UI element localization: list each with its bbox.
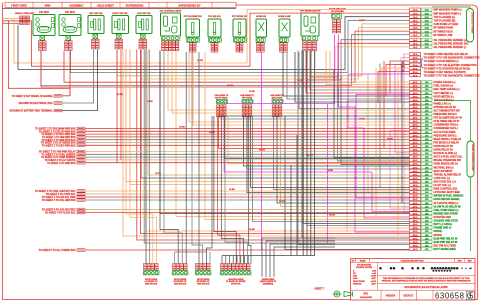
wire (205, 52, 410, 220)
pin CN4-4 (410, 91, 421, 94)
wire (299, 52, 410, 109)
wire (225, 116, 410, 159)
pin CN4-42 (410, 226, 421, 229)
wire (306, 51, 410, 94)
svg-text:TO SHEET 4 TO SOL GND BUS: TO SHEET 4 TO SOL GND BUS (42, 199, 76, 202)
svg-text:6450: 6450 (45, 3, 51, 7)
svg-text:4D·3: 4D·3 (413, 216, 419, 219)
svg-text:4D·3: 4D·3 (413, 173, 419, 176)
connector J2 socket (93, 34, 98, 39)
svg-text:NTS: NTS (363, 294, 368, 296)
svg-text:4D·3: 4D·3 (413, 181, 419, 184)
wire B5 spare leads (262, 238, 335, 277)
wire (307, 40, 410, 80)
svg-text:TO SHEET 2 KEY SIGNAL B (GAUGE: TO SHEET 2 KEY SIGNAL B (GAUGE) (12, 95, 53, 98)
svg-text:±1/2°: ±1/2° (371, 283, 376, 285)
pin CN4-43 (410, 230, 421, 233)
svg-text:P.B. BOX: P.B. BOX (65, 12, 75, 14)
pin CN3-6 (410, 70, 421, 73)
header underline (3, 7, 237, 9)
connector J4 pins (139, 39, 143, 42)
svg-text:BACKUP ALARM (+): BACKUP ALARM (+) (434, 152, 458, 155)
svg-text:4D·3: 4D·3 (413, 188, 419, 191)
svg-text:18 MG: 18 MG (327, 170, 333, 172)
svg-text:4D·3: 4D·3 (413, 131, 419, 134)
pin CN4-10 (410, 113, 421, 116)
harness tag T1 (432, 7, 470, 9)
connector J5 pins (162, 41, 165, 44)
svg-text:SCHEMATIC,ELECTRICAL,6450: SCHEMATIC,ELECTRICAL,6450 (404, 285, 448, 289)
svg-text:4D·3: 4D·3 (413, 195, 419, 198)
svg-text:4D·3: 4D·3 (413, 124, 419, 127)
connector J8 pins (236, 43, 239, 46)
pin CN1-2 (410, 12, 421, 15)
svg-text:TO SHEET 4 TO FLOAT SOL: TO SHEET 4 TO FLOAT SOL (45, 212, 76, 215)
svg-text:SUPERSEDED BY: SUPERSEDED BY (178, 3, 200, 7)
wire border bus red (9, 21, 71, 96)
svg-text:NAME: NAME (360, 260, 366, 263)
wire (283, 52, 410, 96)
wire (148, 50, 410, 176)
pin CN4-2 (410, 84, 421, 87)
svg-text:4D·3: 4D·3 (413, 220, 419, 223)
wire G1 dark (62, 49, 98, 110)
svg-text:4D·3: 4D·3 (413, 237, 419, 240)
svg-text:GND SPLICE: GND SPLICE (197, 284, 210, 286)
svg-text:GND SPLICE: GND SPLICE (145, 284, 158, 286)
svg-text:TO SHEET 2 TO RELAY PWR BUS: TO SHEET 2 TO RELAY PWR BUS (39, 130, 76, 133)
svg-text:TO SHEET 3 KEY SIGNAL B (START: TO SHEET 3 KEY SIGNAL B (START) (424, 71, 467, 74)
pin CN4-36 (410, 205, 421, 208)
wire (123, 50, 410, 237)
svg-text:4D·3: 4D·3 (413, 113, 419, 116)
svg-text:4D·3: 4D·3 (413, 110, 419, 113)
svg-text:KEY SW PNL: KEY SW PNL (89, 13, 103, 15)
svg-text:18 OR: 18 OR (297, 80, 303, 82)
svg-text:4D·3: 4D·3 (413, 209, 419, 212)
title block left column (376, 262, 378, 290)
svg-text:4D·3: 4D·3 (413, 145, 419, 148)
svg-text:TO SHEET 2 TO IGN PWR BUS: TO SHEET 2 TO IGN PWR BUS (42, 137, 76, 139)
svg-text:TOP WIPER MOTOR: TOP WIPER MOTOR (300, 11, 321, 13)
connector J7 socket circles (209, 38, 222, 42)
wire left bus group 4 (85, 190, 410, 192)
svg-text:TO SHEET 3 TO TEMP SENDER: TO SHEET 3 TO TEMP SENDER (41, 157, 76, 159)
pin CN4-3 (410, 88, 421, 91)
svg-text:-: - (158, 4, 159, 7)
svg-text:FRT WORK LP RELAY: FRT WORK LP RELAY (434, 141, 460, 144)
wire (310, 51, 312, 256)
svg-text:4D·3: 4D·3 (413, 241, 419, 244)
harness tag T2 (467, 141, 474, 177)
pin CN1-8 (410, 33, 421, 36)
svg-text:1A·2: 1A·2 (413, 23, 419, 26)
svg-text:16 BK: 16 BK (249, 229, 255, 231)
pin CN4-11 (410, 116, 421, 119)
svg-text:OIL PRESSURE SENDER (-): OIL PRESSURE SENDER (-) (434, 46, 467, 49)
wire (295, 52, 410, 102)
connector J9 socket circles (256, 38, 265, 42)
svg-text:1A·2: 1A·2 (413, 20, 419, 23)
svg-text:TO SHEET 2 TO LP SENSE BUS: TO SHEET 2 TO LP SENSE BUS (41, 143, 76, 145)
connector B3 (196, 264, 199, 267)
svg-text:4D·3: 4D·3 (413, 88, 419, 91)
wire B3 drops (198, 52, 200, 264)
connector J11 pins (303, 41, 307, 44)
svg-text:14 RD: 14 RD (179, 125, 185, 128)
svg-text:TO SHEET 4 TO FUEL SHUTOFF SOL: TO SHEET 4 TO FUEL SHUTOFF SOL (35, 190, 76, 193)
wire G1 red (62, 51, 70, 96)
wire J3 red drops (117, 50, 410, 163)
pin CN4-15 (410, 130, 421, 133)
svg-text:OIL PRESSURE SENDER SIG.: OIL PRESSURE SENDER SIG. (434, 43, 470, 46)
svg-text:4D·3: 4D·3 (413, 102, 419, 105)
svg-text:TOP AIR SOL: TOP AIR SOL (208, 15, 222, 18)
svg-text:TO SHEET 4 TO 2 SPD SOL: TO SHEET 4 TO 2 SPD SOL (46, 193, 76, 196)
svg-text:CHASSIS GND STUD: CHASSIS GND STUD (434, 220, 458, 223)
pin CN4-14 (410, 127, 421, 130)
svg-text:4D·3: 4D·3 (413, 127, 419, 130)
svg-text:630658: 630658 (435, 292, 464, 301)
svg-text:16 RD: 16 RD (249, 91, 255, 93)
svg-text:CONDENSER FAN (-): CONDENSER FAN (-) (434, 127, 458, 130)
pin CN4-26 (410, 169, 421, 172)
pin CN3-1 (410, 53, 421, 56)
svg-text:RF WIPER LOW: RF WIPER LOW (434, 34, 453, 37)
svg-text:TO SHEET 2 TO THE MAIN PWR BUS: TO SHEET 2 TO THE MAIN PWR BUS (35, 128, 76, 131)
svg-text:W/ STROBE: W/ STROBE (331, 11, 344, 13)
pin CN4-12 (410, 120, 421, 123)
wire (274, 116, 410, 190)
wire (168, 51, 410, 111)
pin CN4-24 (410, 162, 421, 165)
svg-text:CAB ROOF HARN: CAB ROOF HARN (471, 12, 474, 33)
svg-text:TO SHEET 3 HOUR METER (+): TO SHEET 3 HOUR METER (+) (424, 60, 459, 63)
svg-text:4D·3: 4D·3 (413, 248, 419, 251)
pin CN4-22 (410, 155, 421, 158)
svg-text:4D·3: 4D·3 (413, 244, 419, 247)
wire (232, 256, 234, 264)
pin CN4-37 (410, 208, 421, 211)
connector J5 socket circles (162, 36, 180, 40)
wire (176, 51, 410, 217)
wire (277, 116, 410, 203)
wire (303, 51, 409, 224)
wire (314, 51, 316, 256)
svg-text:3C·4: 3C·4 (413, 74, 419, 77)
wire magenta roof beacon 2 (339, 35, 410, 233)
revision dots (379, 267, 382, 270)
svg-text:ECM PWR RELAY 85: ECM PWR RELAY 85 (434, 241, 458, 244)
pin CN1-3 (410, 15, 421, 18)
svg-text:TO SHEET 5 TO ALL POWER BUS: TO SHEET 5 TO ALL POWER BUS (39, 249, 76, 252)
svg-text:TOLERANCES: TOLERANCES (357, 264, 372, 267)
projection symbol (334, 291, 340, 297)
drawing title (377, 282, 475, 284)
connector J10 pins (280, 43, 284, 46)
svg-text:SUPERSEDES: SUPERSEDES (126, 3, 144, 7)
connector J6 pins (189, 43, 192, 46)
svg-text:HOUR METER SIGNAL: HOUR METER SIGNAL (434, 198, 461, 201)
pin CN4-21 (410, 152, 421, 155)
svg-text:18 TN: 18 TN (155, 173, 161, 175)
wire left bus single (85, 249, 410, 251)
svg-text:4D·3: 4D·3 (413, 234, 419, 237)
svg-text:ENGINE GND STRAP: ENGINE GND STRAP (434, 212, 459, 215)
connector J8 socket circles (234, 38, 247, 42)
svg-text:4D·3: 4D·3 (413, 152, 419, 155)
svg-text:1A·2: 1A·2 (413, 34, 419, 37)
wire (126, 50, 410, 182)
connector J7 pins (211, 43, 214, 46)
wire (221, 116, 410, 119)
svg-text:ANGLES: ANGLES (353, 282, 362, 285)
wire left bus group 2 (85, 128, 410, 130)
svg-text:WIRE & PWR DIST: WIRE & PWR DIST (15, 13, 35, 15)
wire bottom bundle (222, 255, 315, 257)
connector J4 socket (141, 34, 146, 39)
svg-text:2 SPD SOL (+): 2 SPD SOL (+) (434, 177, 451, 180)
wire (247, 256, 249, 264)
svg-text:ANG: ANG (353, 277, 358, 280)
svg-text:PARK BRAKE SW (+): PARK BRAKE SW (+) (434, 163, 459, 166)
wire (281, 116, 410, 207)
svg-text:HI BLOWER RELAY 87: HI BLOWER RELAY 87 (434, 120, 461, 123)
wire (251, 116, 410, 188)
svg-text:SHEET 7: SHEET 7 (315, 287, 326, 290)
svg-text:SEAT SW INPUT: SEAT SW INPUT (434, 170, 453, 173)
svg-text:HORN SW: HORN SW (256, 16, 266, 18)
wire (311, 51, 410, 229)
svg-text:-: - (224, 4, 225, 7)
wire (326, 51, 410, 85)
svg-text:TO SHEET 5 TO THE DIAGNOSTIC C: TO SHEET 5 TO THE DIAGNOSTIC CONNECTOR (424, 57, 480, 60)
pin CN4-32 (410, 191, 421, 194)
svg-text:FLOAT SOL (+): FLOAT SOL (+) (434, 184, 451, 187)
pin CN4-5 (410, 95, 421, 98)
pin CN4-35 (410, 201, 421, 204)
wire (141, 50, 410, 234)
svg-text:16 RD: 16 RD (147, 101, 153, 103)
svg-text:4D·3: 4D·3 (413, 99, 419, 102)
svg-text:ASSEMBLY: ASSEMBLY (69, 3, 83, 7)
pin CN2-3 (410, 45, 421, 48)
svg-text:BATT SENSE WIRE: BATT SENSE WIRE (434, 248, 457, 251)
svg-text:WIP WASHER PUMP (-): WIP WASHER PUMP (-) (434, 12, 462, 15)
wire (221, 256, 223, 264)
svg-text:4D·3: 4D·3 (413, 92, 419, 95)
svg-text:4D·3: 4D·3 (413, 205, 419, 208)
svg-text:STROBE RELAY 85: STROBE RELAY 85 (434, 106, 457, 109)
svg-text:3C·4: 3C·4 (413, 67, 419, 70)
wire (306, 51, 308, 256)
svg-text:4D·3: 4D·3 (413, 202, 419, 205)
wire (247, 116, 410, 193)
wire (225, 256, 227, 264)
wire (285, 116, 410, 250)
pin CN4-41 (410, 223, 421, 226)
pin CN4-33 (410, 194, 421, 197)
svg-text:18 OR: 18 OR (329, 214, 335, 216)
pin CN4-18 (410, 141, 421, 144)
svg-text:4D·3: 4D·3 (413, 117, 419, 120)
svg-text:3C·4: 3C·4 (413, 60, 419, 63)
svg-text:PRESSURE SW N.C.: PRESSURE SW N.C. (434, 134, 458, 137)
svg-text:18 RD: 18 RD (117, 94, 123, 96)
svg-text:16 GY: 16 GY (307, 155, 313, 157)
connector B1 (144, 264, 147, 267)
svg-text:TO SHEET 2 TO GND BUS BAR: TO SHEET 2 TO GND BUS BAR (42, 139, 76, 142)
wire (219, 116, 410, 149)
svg-text:4D·3: 4D·3 (413, 198, 419, 201)
wire (218, 115, 410, 117)
wire B4 elbows (214, 116, 236, 264)
svg-text:4D·3: 4D·3 (413, 85, 419, 88)
wire (296, 135, 298, 256)
svg-text:DOME LAMP: DOME LAMP (278, 15, 291, 18)
pin CN4-9 (410, 109, 421, 112)
svg-text:FRT WIPER SW: FRT WIPER SW (232, 16, 247, 18)
wire (71, 20, 410, 72)
wire (189, 52, 410, 122)
svg-text:RIDE CONTROL SOL: RIDE CONTROL SOL (434, 188, 459, 191)
wire (193, 52, 410, 125)
wire (240, 256, 242, 264)
wire (18, 17, 410, 70)
wire left bus group 3 (85, 151, 410, 153)
wire (229, 256, 231, 264)
svg-text:FRACTIONS: FRACTIONS (353, 280, 365, 283)
wire B2 elbows (160, 51, 178, 264)
pin CN3-7 (410, 74, 421, 77)
svg-text:4D·3: 4D·3 (413, 184, 419, 187)
svg-text:SCALE NONE: SCALE NONE (360, 296, 373, 299)
pin CN3-3 (410, 60, 421, 63)
svg-text:A/C CONTROL HEAD: A/C CONTROL HEAD (160, 10, 182, 13)
svg-text:18 PK: 18 PK (359, 118, 365, 120)
svg-text:1A·2: 1A·2 (413, 27, 419, 30)
svg-text:4D·3: 4D·3 (413, 138, 419, 141)
pin CN4-29 (410, 180, 421, 183)
svg-text:HARNESS): HARNESS) (263, 283, 274, 286)
wire B1 drops (145, 50, 147, 264)
connector B2 (173, 264, 176, 267)
svg-text:RF WIPER PARK: RF WIPER PARK (434, 27, 454, 30)
svg-text:LIGHT SW PNL: LIGHT SW PNL (112, 13, 128, 15)
svg-text:4D·3: 4D·3 (413, 163, 419, 166)
wire dark feeders (334, 69, 410, 157)
connector J2 pins (92, 39, 96, 42)
pin CN4-40 (410, 219, 421, 222)
svg-text:WIP WASHER PUMP (+): WIP WASHER PUMP (+) (434, 9, 462, 12)
svg-text:ROOF BEACON: ROOF BEACON (329, 7, 346, 10)
wire pink drop 2 (347, 58, 410, 232)
svg-text:16 OR: 16 OR (197, 60, 203, 62)
connector P1 pins (39, 41, 43, 44)
svg-text:TO SHEET 3 TO FAN PWR RELAY: TO SHEET 3 TO FAN PWR RELAY (39, 151, 76, 154)
wire (41, 51, 410, 87)
svg-text:P.B. BOX: P.B. BOX (39, 12, 49, 14)
svg-text:3C·4: 3C·4 (413, 57, 419, 60)
wire (390, 61, 410, 94)
wire (236, 256, 238, 264)
svg-text:4D·3: 4D·3 (413, 177, 419, 180)
wire pink drop 1 (404, 54, 410, 212)
wire (64, 31, 410, 82)
pin CN1-4 (410, 19, 421, 22)
pin CN4-8 (410, 105, 421, 108)
pin CN4-47 (410, 244, 421, 247)
wire (31, 13, 409, 66)
svg-text:AUX SW PNL: AUX SW PNL (137, 12, 151, 15)
pin CN2-1 (410, 38, 421, 41)
svg-text:TO SHEET 4 TO AUX SW FEED: TO SHEET 4 TO AUX SW FEED (42, 209, 76, 212)
wire (14, 10, 410, 64)
svg-text:TO SHEET 2 TO ACC PWR BUS: TO SHEET 2 TO ACC PWR BUS (41, 133, 76, 136)
wire lamp leads (406, 63, 410, 65)
svg-text:MAIN CHASSIS HARN: MAIN CHASSIS HARN (471, 145, 474, 171)
connector B4 (221, 264, 224, 267)
bracket note (421, 59, 423, 69)
wire (302, 51, 304, 256)
svg-text:TO SHEET 2 TO KEY PWR BUS: TO SHEET 2 TO KEY PWR BUS (42, 145, 76, 147)
svg-text:HELD SHEET: HELD SHEET (97, 3, 114, 7)
wire (290, 165, 292, 256)
wire (302, 51, 410, 239)
wire (330, 51, 410, 83)
pin CN4-6 (410, 98, 421, 101)
svg-text:FRAME GND (-): FRAME GND (-) (434, 227, 452, 230)
pin CN4-19 (410, 144, 421, 147)
wire (253, 116, 410, 222)
wire magenta roof beacon 1 (227, 35, 335, 104)
wire tag link (434, 101, 471, 142)
pin CN4-38 (410, 212, 421, 215)
svg-text:18 OR: 18 OR (259, 149, 265, 151)
svg-text:GLOW PLUG RELAY 86: GLOW PLUG RELAY 86 (434, 205, 462, 208)
title block bottom row (351, 289, 476, 291)
connector J12 pins (333, 20, 337, 23)
svg-text:1A·2: 1A·2 (413, 46, 419, 49)
svg-text:RF WIPER HIGH: RF WIPER HIGH (434, 30, 453, 33)
svg-text:16 RD: 16 RD (387, 139, 393, 141)
wire (244, 116, 410, 166)
svg-text:OUTPUTS: OUTPUTS (231, 284, 241, 286)
wire (117, 24, 410, 76)
svg-text:CSOUCY: CSOUCY (403, 294, 414, 297)
pin CN4-16 (410, 134, 421, 137)
svg-text:05: 05 (467, 292, 474, 301)
wire B2 drops (175, 251, 207, 253)
pin CN4-25 (410, 166, 421, 169)
pin CN1-7 (410, 30, 421, 33)
pin CN4-34 (410, 198, 421, 201)
svg-text:ECN: ECN (458, 261, 463, 263)
svg-text:ENG TEMP GAUGE (+): ENG TEMP GAUGE (+) (434, 88, 460, 91)
svg-text:3C·4: 3C·4 (413, 53, 419, 56)
svg-text:4D·3: 4D·3 (413, 141, 419, 144)
svg-text:TO SHEET 3 TO FUEL SENDER: TO SHEET 3 TO FUEL SENDER (42, 154, 76, 156)
svg-text:4D·3: 4D·3 (413, 227, 419, 230)
svg-text:GROUND IN ELECTRICAL BOX: GROUND IN ELECTRICAL BOX (19, 102, 53, 105)
svg-text:18 GY: 18 GY (279, 201, 285, 203)
connector J3 socket (117, 34, 122, 39)
svg-text:VENDOR. ANY REPRODUCTION IN PA: VENDOR. ANY REPRODUCTION IN PART OR WHOL… (381, 280, 470, 283)
wire (130, 50, 410, 185)
svg-text:1A·2: 1A·2 (413, 39, 419, 42)
svg-text:16 BK: 16 BK (229, 189, 235, 191)
pin CN1-6 (410, 26, 421, 29)
